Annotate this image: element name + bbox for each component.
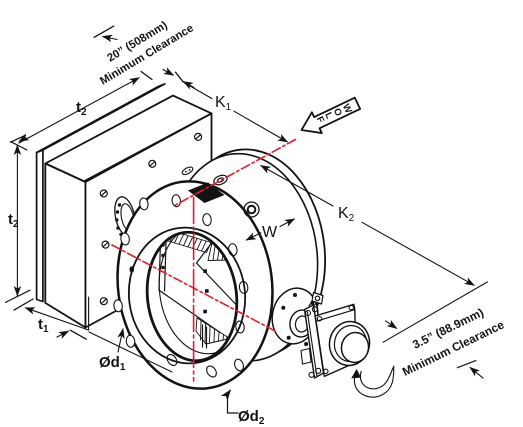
svg-text:K1: K1 <box>215 94 232 113</box>
knob cylinder base <box>326 318 373 368</box>
stem boss <box>288 308 315 339</box>
arrow A <box>386 321 397 329</box>
arrow right <box>57 331 68 337</box>
svg-text:Ød1: Ød1 <box>99 354 126 373</box>
main slab top face <box>45 96 211 182</box>
tick top <box>11 142 27 150</box>
screw S1 <box>100 190 107 197</box>
extension line B <box>89 332 172 372</box>
disc hatch band top <box>162 229 212 253</box>
clearance tick near <box>176 72 184 82</box>
disc left edge <box>159 241 161 291</box>
flange face dot <box>130 266 135 272</box>
text 3.5in clearance <box>391 299 506 379</box>
svg-text:W: W <box>262 224 278 241</box>
bore back rim <box>152 220 256 359</box>
flange inner ring <box>121 221 253 370</box>
main slab screw face <box>86 113 212 327</box>
tick left of t2 top <box>11 135 26 142</box>
wall plate thin top sliver <box>37 84 165 153</box>
tick bottom <box>6 290 31 302</box>
hinge dot 2 <box>161 254 165 258</box>
clearance far arrow <box>103 37 117 40</box>
bottom hatch wedge <box>196 318 230 344</box>
svg-text:t1: t1 <box>38 316 49 335</box>
svg-text:Ød2: Ød2 <box>238 408 265 427</box>
clearance 3.5 long line <box>383 282 488 378</box>
bore ellipse <box>140 227 244 366</box>
screw S5 <box>100 298 107 305</box>
screw S4 <box>102 241 109 248</box>
rotation arrow <box>351 366 394 397</box>
rear flange dot B <box>269 312 273 318</box>
text 20in clearance <box>90 9 196 88</box>
port oval small <box>181 166 194 177</box>
rear flange dot A <box>264 269 268 275</box>
hinge dot 3 <box>161 266 165 270</box>
red centerline pipe axis <box>175 140 296 206</box>
knob chamfer ring <box>332 323 370 364</box>
actuator plate <box>305 305 324 378</box>
box bottom corner double edge <box>88 297 90 330</box>
bore internals <box>152 220 256 359</box>
valve body back flange front rim <box>159 146 327 368</box>
valve body back flange <box>167 142 335 364</box>
stem dot 2 <box>205 289 209 293</box>
tick B <box>457 361 475 368</box>
dim K1 line <box>184 83 287 142</box>
dim W arrows <box>246 219 294 240</box>
flange bolt holes <box>113 194 248 379</box>
pipe stub between wall and flange <box>112 195 139 238</box>
red centerline vertical <box>193 198 195 382</box>
dim Od2 leader <box>228 390 239 413</box>
dim t2 left vertical <box>6 142 31 303</box>
hinge dot 1 <box>161 243 165 247</box>
front flange outer ellipse <box>106 172 284 397</box>
actuator block <box>315 304 356 376</box>
knob cap <box>339 330 371 364</box>
svg-text:K2: K2 <box>338 205 355 224</box>
disc right diagonal <box>197 243 213 264</box>
arrow B <box>470 368 483 379</box>
arrow left with long shaft <box>26 308 89 330</box>
red centerline stem axis <box>112 245 277 332</box>
port hex oval <box>212 173 228 186</box>
actuator top-left pad <box>309 293 323 307</box>
main slab side face <box>45 164 85 328</box>
svg-text:t2: t2 <box>76 99 87 118</box>
clearance near arrows <box>163 70 173 76</box>
wall plate thin front strip <box>37 150 43 302</box>
FLOW arrow <box>297 93 363 140</box>
black tag on body <box>188 183 225 204</box>
dim Od1 leader <box>118 329 123 352</box>
stem pad <box>267 284 323 348</box>
tick left <box>14 299 33 310</box>
dim t2 top line <box>11 26 195 143</box>
clearance far tick <box>94 26 114 37</box>
dim t1 <box>14 299 172 372</box>
tick right of t2 top <box>141 72 152 80</box>
rear flange dot C <box>261 328 265 334</box>
dim K2 line <box>261 166 474 286</box>
disc hatch wedge top right <box>208 243 229 261</box>
stem bottom lines <box>202 325 204 347</box>
screw S3 <box>195 133 202 140</box>
screw S2 <box>149 160 156 167</box>
stem dot 1 <box>203 269 207 273</box>
pad bolt dots <box>281 293 317 346</box>
tick right <box>70 330 86 339</box>
stem dot 3 <box>203 310 207 314</box>
disc lower diagonal <box>160 291 221 333</box>
boss on body <box>244 202 259 217</box>
